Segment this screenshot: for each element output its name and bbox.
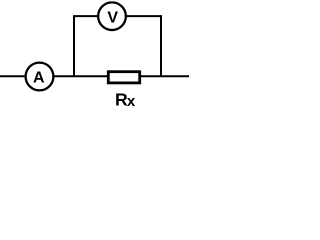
svg-text:Rx: Rx [115, 90, 136, 111]
wire: main horizontal line [0, 75, 189, 77]
voltmeter V [98, 2, 126, 30]
ammeter A [26, 63, 54, 91]
wire: parallel voltmeter branch (left vertical, top horizontal, right vertical) [74, 16, 161, 76]
svg-text:A: A [33, 69, 45, 86]
resistor Rx [108, 72, 139, 83]
svg-text:V: V [107, 10, 118, 27]
